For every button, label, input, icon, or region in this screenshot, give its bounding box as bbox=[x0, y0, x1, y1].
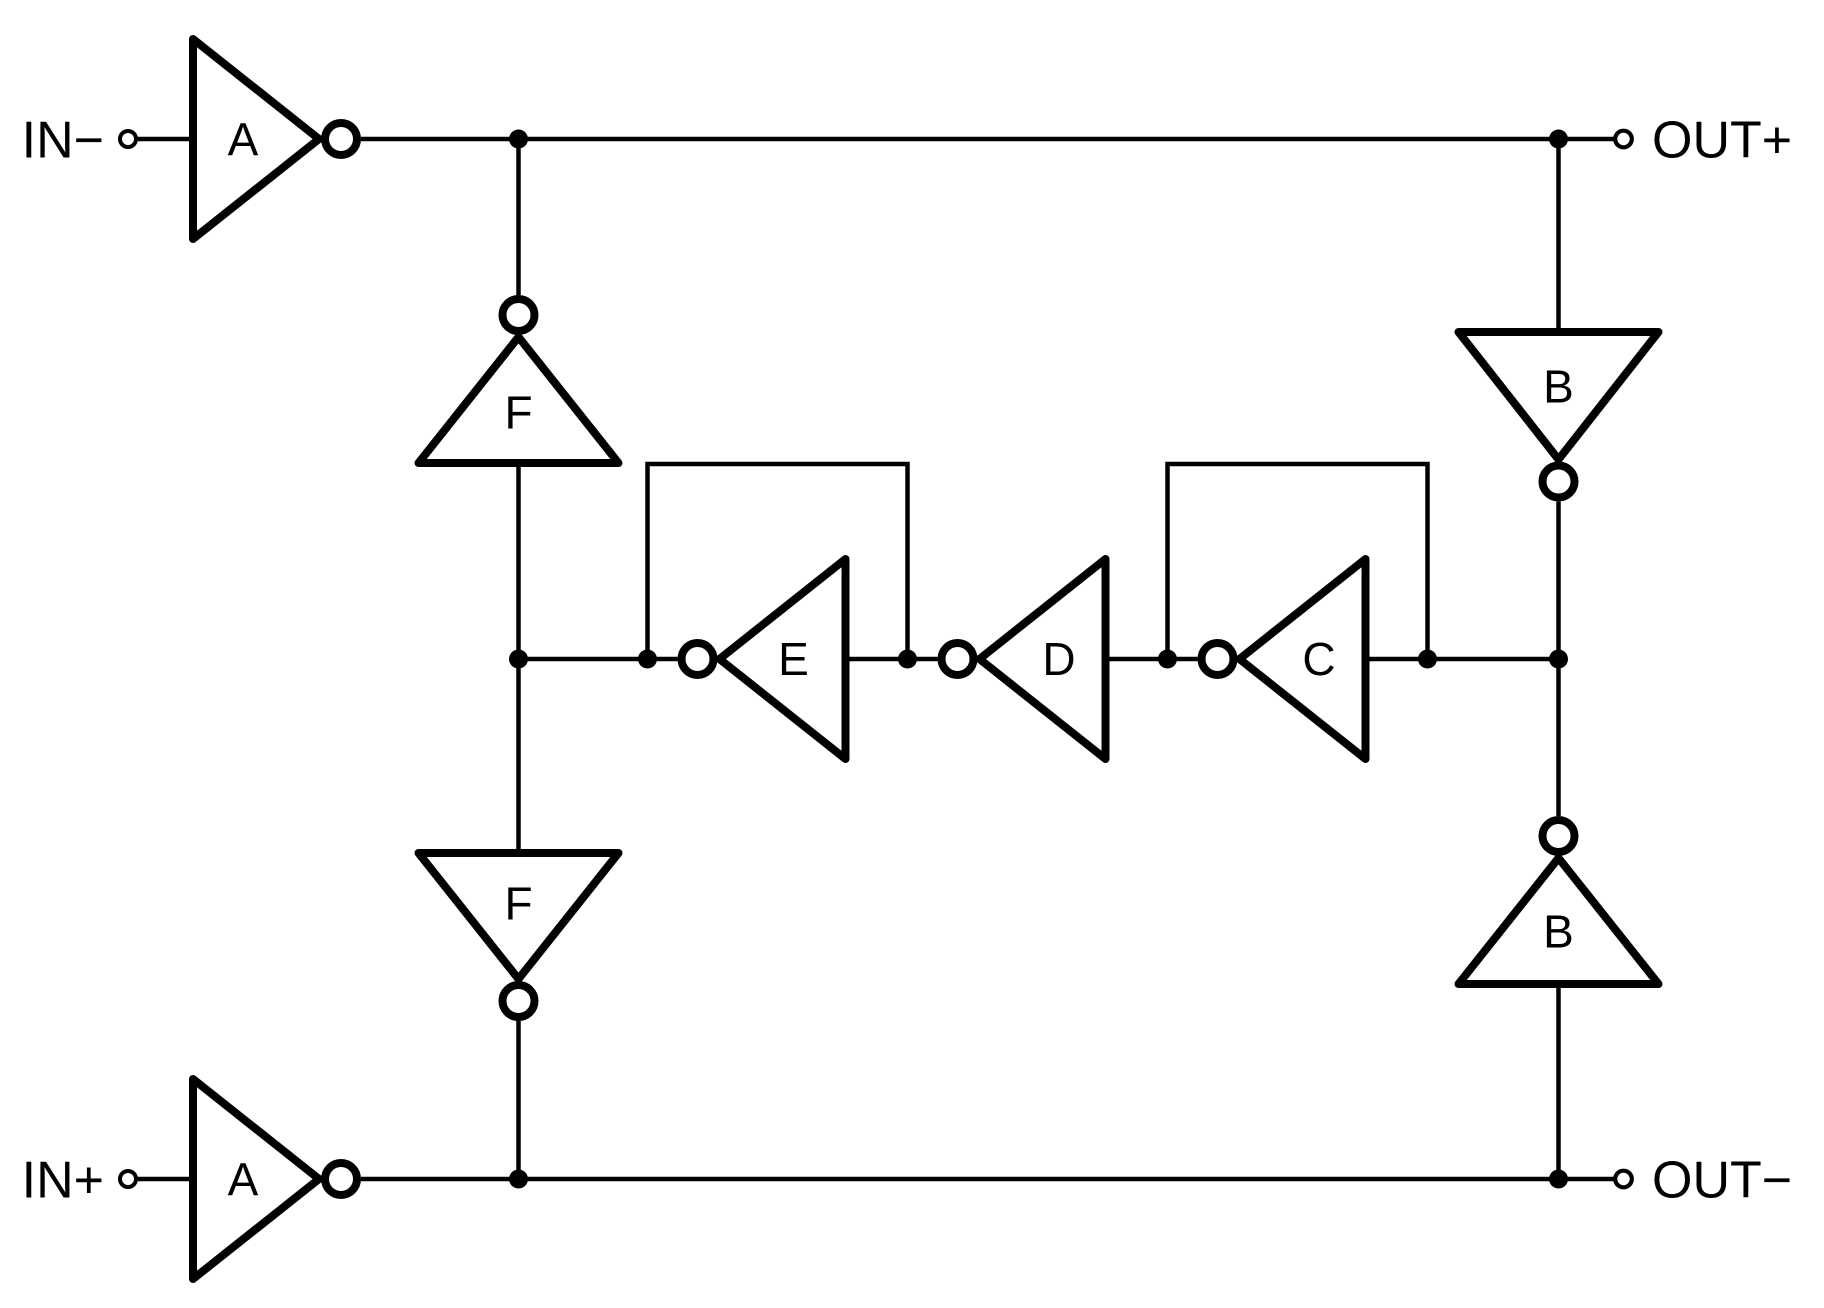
junction dot bottom rail left bbox=[509, 1170, 528, 1189]
wire inverter C input to B column bbox=[1366, 657, 1559, 662]
svg-text:D: D bbox=[1042, 633, 1075, 685]
wire inverter B (bottom) input to bottom rail bbox=[1556, 984, 1561, 1179]
svg-text:A: A bbox=[228, 114, 259, 166]
wire inverter F (bottom) output bubble to bottom rail bbox=[516, 1021, 521, 1179]
inverter A bottom bbox=[193, 1079, 357, 1279]
wire feedback box around E bbox=[648, 464, 908, 659]
svg-text:B: B bbox=[1543, 906, 1574, 958]
wire middle rail down to inverter F (bottom) input bbox=[516, 659, 521, 853]
junction dot top rail right bbox=[1549, 130, 1568, 149]
junction dot top rail left bbox=[509, 130, 528, 149]
terminal IN- bbox=[120, 131, 136, 147]
svg-text:IN+: IN+ bbox=[22, 1152, 104, 1210]
wire bottom rail, inverter A output to OUT- (net OUT-) bbox=[361, 1177, 1614, 1182]
wire top rail down to inverter F (top) output bubble bbox=[516, 139, 521, 295]
wire top rail, inverter A output to OUT+ (net OUT+) bbox=[361, 137, 1614, 142]
wire middle rail, F column to inverter E output bubble bbox=[519, 657, 678, 662]
junction dot node C input bbox=[1418, 650, 1437, 669]
svg-text:OUT−: OUT− bbox=[1652, 1152, 1792, 1210]
svg-text:C: C bbox=[1302, 633, 1335, 685]
svg-text:OUT+: OUT+ bbox=[1652, 112, 1792, 170]
inverter F bottom bbox=[419, 853, 619, 1017]
inverter B bottom bbox=[1459, 820, 1659, 984]
wire IN- terminal to inverter A input bbox=[138, 137, 193, 142]
terminal OUT- bbox=[1615, 1171, 1632, 1188]
svg-text:F: F bbox=[504, 387, 532, 439]
svg-text:A: A bbox=[228, 1154, 259, 1206]
inverter E bbox=[682, 559, 846, 759]
wire inverter D input to inverter C output bubble bbox=[1106, 657, 1198, 662]
svg-text:E: E bbox=[778, 633, 809, 685]
inverter A top bbox=[193, 39, 357, 239]
terminal OUT+ bbox=[1615, 131, 1632, 148]
terminal IN+ bbox=[120, 1171, 136, 1187]
inverter B top bbox=[1459, 332, 1659, 498]
svg-text:IN−: IN− bbox=[22, 112, 104, 170]
wire top rail down to inverter B (top) input bbox=[1556, 139, 1561, 332]
wire IN+ terminal to inverter A input bbox=[138, 1177, 193, 1182]
junction dot mid rail F column bbox=[509, 650, 528, 669]
inverter D bbox=[942, 559, 1106, 759]
wire middle rail down to inverter B (bottom) output bubble bbox=[1556, 659, 1561, 816]
wire feedback box around C bbox=[1168, 464, 1428, 659]
svg-text:F: F bbox=[504, 878, 532, 930]
wire inverter B (top) output bubble to middle rail bbox=[1556, 502, 1561, 660]
junction dot node E output bbox=[638, 650, 657, 669]
svg-text:B: B bbox=[1543, 361, 1574, 413]
junction dot node D output bbox=[898, 650, 917, 669]
junction dot mid rail B column bbox=[1549, 650, 1568, 669]
wire inverter F (top) input to middle rail bbox=[516, 463, 521, 659]
junction dot node C output bbox=[1158, 650, 1177, 669]
junction dot bottom rail right bbox=[1549, 1170, 1568, 1189]
wire inverter E input to inverter D output bubble bbox=[846, 657, 938, 662]
inverter F top bbox=[419, 299, 619, 463]
inverter C bbox=[1202, 559, 1366, 759]
